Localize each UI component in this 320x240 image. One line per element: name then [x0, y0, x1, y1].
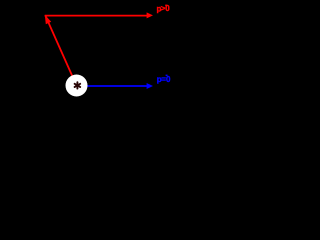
- blue horizontal arrow shaft (p=0): [80, 85, 148, 87]
- red horizontal arrowhead: [147, 12, 153, 18]
- star (excited nucleus asterisk): [75, 82, 81, 88]
- svg-text:=0: =0: [161, 75, 171, 84]
- label p>0 (red): [157, 4, 171, 14]
- red diagonal arrowhead: [45, 15, 51, 24]
- blue horizontal arrowhead: [147, 83, 153, 89]
- red horizontal arrow shaft (p>0): [45, 15, 148, 17]
- label p=0 (blue): [157, 75, 171, 84]
- red diagonal arrow shaft (photon emitted up-left): [45, 15, 76, 85]
- atom circle (white disc): [66, 75, 88, 97]
